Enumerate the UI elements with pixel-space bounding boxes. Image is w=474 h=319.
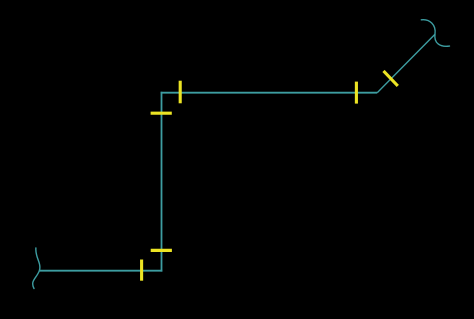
wire: bottom horizontal pipe segment — [39, 270, 163, 272]
wire: top horizontal pipe segment — [161, 92, 378, 94]
pipe break symbol S1 (left end of bottom pipe) — [33, 248, 40, 289]
weld tick T3 on vertical pipe (upper) — [151, 112, 172, 115]
weld tick T5 on top pipe (near bend) — [355, 82, 358, 104]
wire: vertical riser pipe segment — [161, 92, 163, 272]
weld tick T1 on bottom pipe — [140, 260, 143, 281]
weld tick T6 on diagonal pipe — [384, 71, 398, 86]
wire: diagonal pipe segment — [377, 34, 435, 92]
weld tick T2 on vertical pipe (lower) — [151, 249, 172, 252]
weld tick T4 on top pipe (near elbow) — [179, 81, 182, 104]
pipe break symbol S2 (top right end of diagonal pipe) — [421, 20, 449, 47]
